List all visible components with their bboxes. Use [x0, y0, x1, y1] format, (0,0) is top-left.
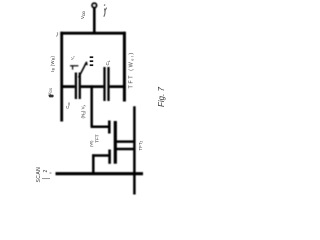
- transistor Q1+Q2 channel bar: [114, 121, 117, 164]
- wire cap row middle: [81, 85, 103, 88]
- capacitor Cs right plate: [79, 73, 81, 100]
- svg-text:VGS: VGS: [47, 88, 53, 96]
- capacitor CL right plate: [107, 67, 109, 101]
- wire cap row right: [110, 85, 126, 88]
- wire left wall: [60, 32, 63, 122]
- svg-text:(N1) Vx: (N1) Vx: [81, 104, 87, 118]
- wire gate drop to scan bus: [92, 154, 95, 173]
- label VDD: [80, 11, 86, 19]
- transistor Q1 gate bar: [108, 121, 111, 134]
- corner curl mark: [56, 32, 57, 36]
- wire terminal stem: [93, 8, 96, 35]
- svg-text:IB (WB): IB (WB): [50, 56, 56, 72]
- svg-text:Vc: Vc: [70, 55, 76, 60]
- wire cap row left: [61, 85, 75, 88]
- capacitor Cs left plate: [75, 73, 77, 100]
- wire node drop to Q1 gate: [90, 85, 93, 126]
- svg-text:v: v: [49, 172, 53, 174]
- arrow variable capacitor: [79, 61, 88, 77]
- transistor Q2 gate bar: [108, 150, 111, 164]
- wire right wall: [123, 32, 126, 102]
- node dashes: [90, 57, 94, 65]
- wire Q2 drain: [116, 148, 136, 151]
- terminal VDD: [92, 3, 96, 7]
- wire box top: [60, 32, 125, 35]
- wire Q1 source: [114, 140, 136, 143]
- svg-text:SCAN: SCAN: [36, 167, 42, 183]
- svg-text:TFT: TFT: [95, 134, 100, 143]
- node tee mark: [70, 66, 78, 70]
- svg-text:CL: CL: [105, 60, 111, 65]
- svg-text:(W): (W): [89, 140, 94, 147]
- wire scan bus bottom: [56, 172, 144, 175]
- wire Q2 gate lead: [92, 154, 109, 157]
- wire Q1 gate lead: [91, 126, 109, 129]
- svg-text:Cox: Cox: [65, 102, 71, 109]
- wire right vertical rail: [133, 106, 136, 194]
- svg-text:TFT2: TFT2: [138, 140, 144, 150]
- capacitor CL left plate: [103, 67, 105, 101]
- svg-text:VDD: VDD: [80, 11, 86, 19]
- svg-text:Fig. 7: Fig. 7: [157, 86, 166, 107]
- scan underline dash: [42, 178, 50, 180]
- annotation squiggle: [104, 5, 107, 17]
- svg-text:2: 2: [43, 170, 49, 173]
- svg-text:TFT (Wel): TFT (Wel): [129, 51, 135, 88]
